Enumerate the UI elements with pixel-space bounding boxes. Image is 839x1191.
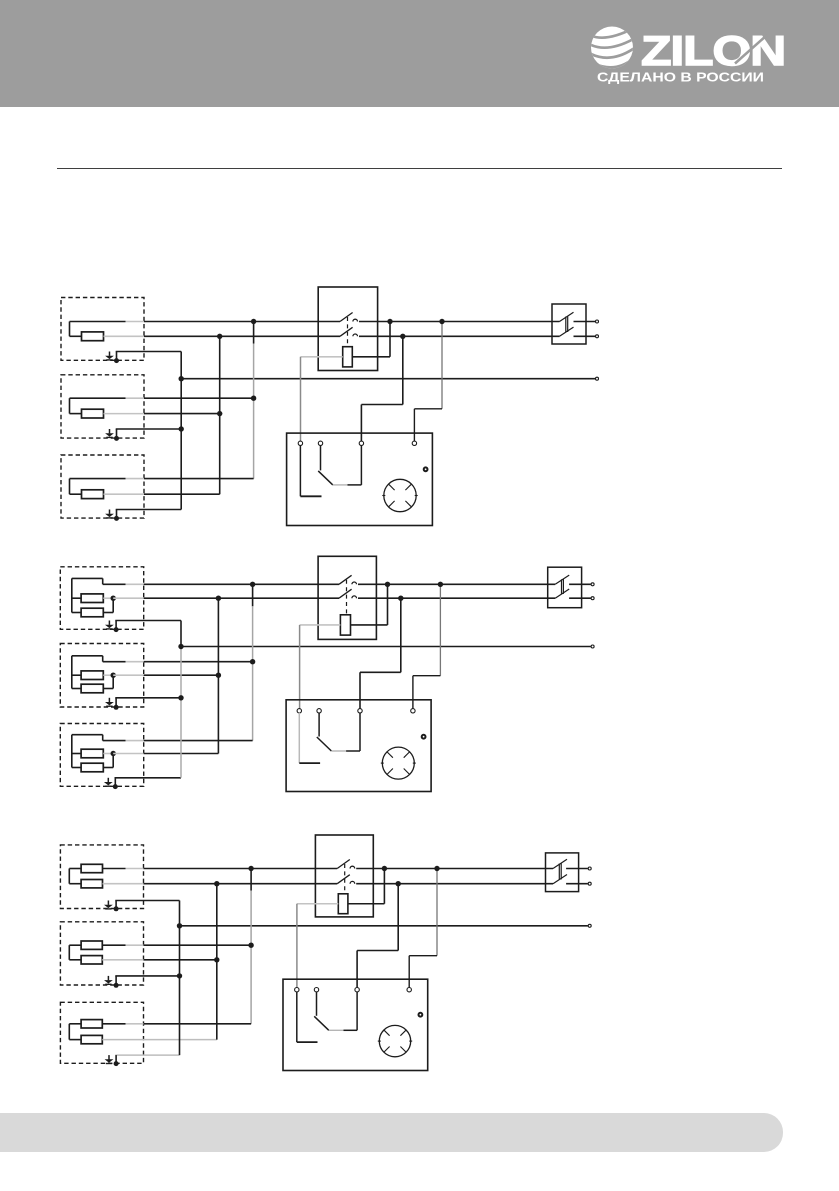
wire (gray stub) [126, 740, 144, 742]
heater unit 1.1 dashed enclosure [61, 298, 144, 361]
node N heater 2 [217, 411, 222, 416]
room thermostat box A3 [283, 979, 428, 1070]
ground symbol heater 2.2 [105, 698, 114, 706]
heater 2.2 left bracket wire [71, 656, 73, 689]
wire L chain lower (gray) [253, 398, 255, 478]
relay contact blade 2b [339, 589, 352, 598]
thermal element KK3 [338, 894, 348, 914]
thermostat switch blade [317, 737, 332, 751]
room thermostat box A2 [286, 700, 431, 792]
wire heater 2.2 phase feed [144, 661, 253, 663]
wire L to thermostat (gray) [439, 584, 441, 675]
wire [102, 944, 125, 946]
PE stub wire [116, 429, 118, 438]
indicator LED [422, 735, 426, 739]
wire N breaker output [569, 597, 591, 599]
wire PE chain upper [180, 621, 182, 647]
heating element EK2.3b [81, 763, 103, 772]
heating element EK2.1b [81, 608, 103, 617]
wire heater 3.2 phase feed [144, 944, 252, 946]
breaker link bar 2 [567, 317, 569, 333]
node PE heater 2 [177, 973, 182, 978]
wire (gray stub) [103, 597, 113, 599]
junction of element outputs [111, 596, 116, 601]
heating element EK3.2a [81, 941, 102, 949]
ground symbol heater 3.1 [104, 901, 113, 909]
circuit breaker QF3 [546, 853, 579, 892]
thermostat terminal 1 [298, 441, 302, 445]
wire [361, 404, 402, 406]
breaker blade lower [555, 589, 569, 598]
PE stub junction [114, 436, 119, 441]
wire (gray stub) [126, 1023, 144, 1025]
wire N diagram 2 [144, 597, 339, 599]
wire [102, 735, 104, 741]
wire PE diagram 3 [180, 925, 588, 927]
PE wire from heater 3.1 [115, 900, 179, 902]
terminal PE [596, 377, 599, 380]
wire [409, 955, 437, 957]
wire L chain lower (gray) [250, 945, 252, 1024]
thermostat internal wire [296, 992, 298, 1042]
thermostat internal wire [348, 484, 362, 486]
mechanical link (dashed) [344, 864, 346, 894]
wire (gray stub) [126, 321, 145, 323]
thermostat terminal 2 [318, 441, 322, 445]
wire heater 1.2 neutral [144, 413, 220, 415]
PE stub junction [114, 358, 119, 363]
wire (gray stub) [104, 413, 145, 415]
ground symbol heater 2.3 [104, 778, 113, 786]
heater unit 3.1 dashed enclosure [60, 845, 143, 909]
wire L to thermostat (gray) [436, 869, 438, 956]
wire L (phase) diagram 2 [144, 583, 339, 585]
wire L chain (gray) [250, 891, 252, 946]
heater 3.2 left bracket wire [68, 945, 70, 960]
ground symbol heater 3.2 [104, 976, 113, 984]
ground symbol heater 3.3 [105, 1055, 114, 1063]
node PE heater 2 [178, 695, 183, 700]
wire (gray stub) [102, 959, 143, 961]
wire [70, 321, 126, 323]
heater unit 2.1 dashed enclosure [60, 567, 143, 630]
PE wire from heater 2.3 [115, 777, 182, 779]
heating element EK3.1a [81, 864, 102, 872]
node L heater 2 [251, 396, 256, 401]
wire PE chain [179, 901, 181, 1056]
PE wire from heater 1.2 [116, 428, 182, 430]
wire from thermal element [352, 356, 390, 358]
wire (gray stub) [104, 335, 145, 337]
heater unit 3.2 dashed enclosure [60, 922, 143, 985]
thermal element KK2 [340, 615, 350, 635]
PE stub wire [114, 778, 116, 787]
heating element EK3.3a [81, 1020, 102, 1028]
thermostat switch blade [318, 471, 333, 485]
junction of element outputs [111, 673, 116, 678]
PE stub junction [114, 705, 119, 710]
PE stub wire [116, 352, 118, 361]
wire (phase feed top) [72, 655, 103, 657]
heating element EK3.2b [81, 956, 102, 964]
thermostat internal wire [356, 992, 358, 1031]
heating element EK2.2b [81, 684, 103, 693]
breaker blade upper [555, 575, 569, 584]
wire [408, 956, 410, 988]
wire [103, 661, 126, 663]
PE stub junction [114, 906, 119, 911]
wire L chain (gray) [252, 606, 254, 661]
thermostat internal wire (gray) [329, 1029, 344, 1031]
wire [413, 675, 441, 677]
wire [102, 656, 104, 662]
thermostat terminal 3 [358, 709, 362, 713]
wire up to phase [389, 322, 391, 357]
node thermal element to L [385, 582, 390, 587]
wire [112, 754, 114, 768]
PE stub junction [114, 1061, 119, 1066]
thermostat terminal 4 [407, 988, 411, 992]
node PE chain [177, 923, 182, 928]
wire (gray stub) [104, 493, 145, 495]
wire L chain upper [250, 869, 252, 891]
wire to thermostat (gray) [301, 356, 343, 358]
heater 2.3 left bracket wire [71, 735, 73, 768]
wiring diagram 3 : dual-element heaters, split [60, 835, 591, 1071]
relay contact blade 3a [337, 860, 350, 869]
thermostat terminal 2 [317, 709, 321, 713]
wire L breaker output [566, 868, 588, 870]
heater unit 1.2 dashed enclosure [61, 375, 144, 438]
heating element EK2.1a [81, 594, 103, 603]
thermostat internal bar [300, 495, 321, 497]
wire L (phase) diagram 1 [144, 321, 340, 323]
wire [359, 672, 361, 709]
breaker link bar 1 [558, 864, 560, 880]
wire (gray stub) [126, 397, 145, 399]
wire [72, 753, 81, 755]
wire N breaker output [574, 335, 596, 337]
wire (gray stub) [113, 674, 144, 676]
terminal N [591, 597, 594, 600]
control wire to thermostat (gray) [300, 357, 302, 442]
heating element EK1.3 [82, 490, 104, 499]
node PE chain [178, 644, 183, 649]
node L chain [250, 582, 255, 587]
ZILON logo globe [588, 27, 637, 69]
PE wire from heater 2.1 [115, 620, 181, 622]
PE stub junction [114, 627, 119, 632]
node L heater 2 [248, 943, 253, 948]
node L tap [439, 319, 444, 324]
wire [360, 671, 401, 673]
wire [112, 598, 114, 612]
wire [103, 740, 126, 742]
wire [72, 767, 81, 769]
thermal cutout box KK3 [315, 835, 373, 917]
wire [102, 1023, 125, 1025]
wire (gray stub) [103, 674, 113, 676]
thermostat knob [384, 479, 416, 511]
wire [103, 688, 113, 690]
relay contact hook 2b [352, 596, 357, 598]
thermostat terminal 3 [355, 988, 359, 992]
terminal L [588, 867, 591, 870]
wire up to phase [383, 869, 385, 904]
wiring diagram 2 : dual-element heaters, parallel [60, 556, 594, 791]
thermostat internal wire [360, 445, 362, 485]
wire from thermal element [348, 903, 385, 905]
wire PE diagram 2 [181, 646, 591, 648]
node PE heater 2 [179, 426, 184, 431]
wire L relay to breaker [356, 868, 553, 870]
wire [72, 597, 81, 599]
thermostat terminal 1 [295, 988, 299, 992]
mechanical link (dashed) [346, 580, 348, 615]
node L chain [251, 319, 256, 324]
wire N relay to breaker [356, 883, 553, 885]
node L chain [248, 866, 253, 871]
control wire to thermostat (gray) [296, 904, 298, 988]
PE wire from heater 1.1 [116, 351, 182, 353]
PE stub junction [114, 983, 119, 988]
breaker blade upper [553, 859, 567, 868]
wire L breaker output [574, 321, 596, 323]
node N chain [217, 334, 222, 339]
node N heater 2 [216, 673, 221, 678]
wire PE chain [180, 352, 182, 510]
PE wire from heater 1.3 [116, 509, 182, 511]
wire to thermostat (gray) [300, 624, 341, 626]
PE stub wire [115, 1055, 117, 1064]
PE stub wire [116, 510, 118, 519]
wire L chain upper [252, 584, 254, 606]
wire (gray stub) [126, 478, 145, 480]
breaker link bar 2 [560, 864, 562, 880]
wire [412, 676, 414, 709]
node N chain [214, 881, 219, 886]
wire [69, 883, 81, 885]
wire [414, 408, 442, 410]
wire L chain (gray) [253, 344, 255, 399]
node thermal element to L [382, 866, 387, 871]
wire N to thermostat [402, 336, 404, 404]
wire N to thermostat [400, 598, 402, 672]
wire [103, 583, 126, 585]
heating element EK2.3a [81, 749, 103, 758]
relay contact hook 3b [350, 881, 355, 883]
node PE chain [179, 376, 184, 381]
wire [69, 1023, 81, 1025]
PE wire from heater 3.2 [115, 975, 179, 977]
header band [0, 0, 839, 107]
indicator LED [424, 467, 428, 471]
wire from thermal element [351, 624, 388, 626]
wire [357, 950, 398, 952]
wire L relay to breaker [359, 321, 560, 323]
relay contact blade 3b [337, 875, 350, 884]
heater 1.2 internal wire [69, 398, 71, 413]
terminal N [588, 882, 591, 885]
PE stub wire [115, 698, 117, 708]
wire [70, 413, 82, 415]
thermostat knob [379, 1025, 410, 1056]
breaker blade lower [560, 327, 574, 336]
logo O slash [735, 35, 767, 64]
wire N chain [219, 336, 221, 494]
wire [360, 405, 362, 442]
heating element EK3.1b [81, 880, 102, 888]
node N chain [216, 596, 221, 601]
wire N chain [217, 598, 219, 753]
thermostat internal wire [346, 750, 360, 752]
ground symbol heater 2.1 [105, 621, 114, 629]
wire up to phase [387, 584, 389, 625]
node L heater 2 [250, 659, 255, 664]
PE stub junction [114, 516, 119, 521]
wire PE chain lower (gray) [180, 647, 182, 778]
wire (gray stub) [126, 583, 144, 585]
thermostat internal wire [344, 1029, 358, 1031]
wire [413, 409, 415, 442]
wire [69, 1039, 81, 1041]
wire heater 2.3 neutral [144, 753, 219, 755]
heater 3.3 left bracket wire [68, 1024, 70, 1040]
PE stub junction [113, 784, 118, 789]
wire (gray stub) [113, 753, 144, 755]
thermal cutout box KK2 [318, 556, 376, 639]
wire (gray stub) [126, 944, 144, 946]
heating element EK2.2a [81, 671, 103, 680]
thermostat terminal 4 [411, 709, 415, 713]
wire (gray stub) [103, 753, 113, 755]
heating element EK1.2 [82, 409, 104, 418]
terminal L [591, 583, 594, 586]
node L tap [434, 866, 439, 871]
wire [103, 612, 113, 614]
wire L (phase) diagram 3 [144, 868, 338, 870]
junction of element outputs [111, 751, 116, 756]
wire L relay to breaker [358, 583, 555, 585]
wire N chain [216, 884, 218, 1040]
breaker blade lower [553, 875, 567, 884]
wire heater 3.2 neutral [144, 959, 217, 961]
heater 2.1 left bracket wire [71, 578, 73, 612]
terminal N [596, 335, 599, 338]
thermal element KK1 [343, 347, 353, 367]
terminal L [596, 320, 599, 323]
thermostat internal bar [297, 1041, 318, 1043]
circuit breaker QF1 [552, 304, 586, 344]
terminal PE [591, 645, 594, 648]
wire [70, 335, 82, 337]
wire [70, 397, 126, 399]
wire [69, 868, 81, 870]
wire L to thermostat (gray) [441, 322, 443, 409]
thermostat internal wire (gray) [333, 484, 348, 486]
node N heater 2 [214, 957, 219, 962]
wire [69, 959, 81, 961]
PE wire from heater 3.3 [115, 1054, 179, 1056]
wire [72, 674, 81, 676]
wire N to thermostat [397, 884, 399, 951]
PE stub wire [115, 901, 117, 909]
wire (gray stub) [103, 883, 144, 885]
heater 3.1 left bracket wire [68, 869, 70, 884]
heater unit 3.3 dashed enclosure [60, 1002, 143, 1063]
ground symbol heater 1.1 [105, 352, 114, 360]
thermostat terminal 2 [314, 988, 318, 992]
knob cross marks [387, 752, 393, 758]
heater unit 2.2 dashed enclosure [60, 644, 143, 708]
breaker blade upper [560, 312, 574, 321]
node N tap [400, 334, 405, 339]
PE stub wire [115, 976, 117, 985]
heater 1.3 internal wire [69, 479, 71, 495]
thermostat internal wire [298, 713, 300, 763]
wire [72, 612, 81, 614]
control wire to thermostat (gray) [299, 625, 301, 709]
wire heater 1.2 phase feed [144, 397, 254, 399]
thermostat internal wire (gray) [331, 750, 346, 752]
thermostat internal wire [316, 992, 318, 1016]
heating element EK1.1 [82, 332, 104, 341]
PE stub wire [115, 621, 117, 630]
wire N relay to breaker [358, 597, 555, 599]
knob cross marks [389, 484, 395, 490]
relay contact blade 2a [339, 575, 352, 584]
wire (phase feed top) [72, 577, 103, 579]
thermostat internal wire [320, 445, 322, 470]
wire [112, 675, 114, 688]
circuit breaker QF2 [548, 567, 582, 608]
PE wire from heater 2.2 [115, 697, 181, 699]
wire (gray stub) [126, 661, 144, 663]
mechanical link (dashed) [347, 317, 349, 347]
wire [72, 688, 81, 690]
indicator LED [419, 1013, 423, 1017]
thermostat switch blade [314, 1016, 329, 1030]
breaker link bar 2 [562, 579, 564, 594]
relay contact hook 1a [353, 319, 358, 321]
heater 1.1 internal wire [69, 322, 71, 337]
wire heater 1.3 phase feed [144, 478, 254, 480]
room thermostat box A1 [287, 433, 433, 525]
relay contact hook 2a [352, 582, 357, 584]
thermostat internal bar [299, 762, 320, 764]
knob cross marks [384, 1030, 389, 1035]
wire L chain upper [253, 322, 255, 344]
wire heater 1.3 neutral [144, 493, 220, 495]
wire (phase feed top) [72, 734, 103, 736]
breaker link bar 1 [561, 579, 563, 594]
horizontal rule [57, 168, 782, 170]
wire heater 2.3 phase feed [144, 740, 253, 742]
terminal PE [588, 924, 591, 927]
node N tap [396, 881, 401, 886]
node N tap [398, 596, 403, 601]
thermostat terminal 3 [359, 441, 363, 445]
wire [102, 578, 104, 584]
node thermal element to L [387, 319, 392, 324]
wire to thermostat (gray) [297, 903, 338, 905]
thermostat terminal 1 [297, 709, 301, 713]
thermostat terminal 4 [412, 441, 416, 445]
wire (gray stub) [113, 597, 144, 599]
wire L breaker output [569, 583, 591, 585]
wire [356, 951, 358, 988]
wire N diagram 3 [144, 883, 338, 885]
